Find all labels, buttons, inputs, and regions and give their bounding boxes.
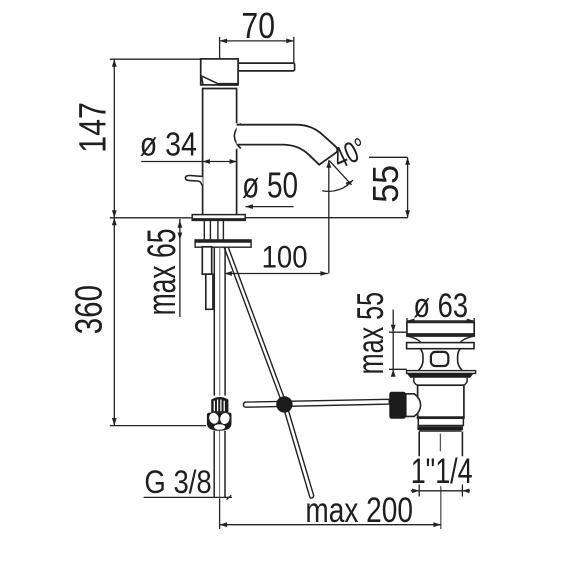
pivot collar and dome: [406, 394, 421, 417]
spout collar arc: [234, 124, 240, 149]
flexible hose: [214, 247, 225, 395]
arrows max55: [391, 325, 396, 333]
svg-text:ø 50: ø 50: [242, 165, 298, 205]
handle lever: [238, 63, 295, 71]
drain upper body sides: [419, 349, 462, 371]
dim max55: [389, 310, 407, 377]
arrows 360: [112, 218, 117, 226]
faucet body: [202, 88, 237, 214]
drain tail top line: [419, 430, 462, 432]
arrows max65: [178, 220, 183, 228]
spout axis vertical leg: [328, 160, 330, 273]
arrows 55: [405, 157, 410, 165]
svg-text:55: 55: [366, 165, 406, 203]
40 degree arc: [322, 180, 353, 191]
threaded stud box A: [202, 247, 211, 274]
dim 1"1/4: [411, 485, 470, 497]
dim max200 line: [220, 524, 441, 526]
svg-text:100: 100: [262, 240, 308, 275]
pop-up rod upper segment: [224, 248, 286, 404]
cartridge housing: [201, 59, 238, 85]
arrow spout axis: [326, 160, 331, 168]
G3/8 nut: [207, 412, 232, 431]
drain bottom band: [417, 426, 463, 430]
svg-text:ø 34: ø 34: [140, 126, 197, 164]
dim 70 extension lines: [220, 37, 294, 63]
dim 55 bracket: [369, 157, 408, 217]
extension line top: [110, 58, 201, 60]
base plate: [192, 215, 245, 221]
LABELS START: [68, 7, 473, 530]
pop-up rod lower segment: [282, 404, 313, 498]
drain centerline: [439, 434, 441, 529]
drain neck curves: [407, 336, 474, 342]
drain collar: [414, 378, 467, 386]
drain upper washer: [407, 343, 474, 349]
drain lower washer: [407, 371, 476, 378]
arrows 100: [224, 271, 232, 276]
dim 100 line: [224, 273, 328, 275]
svg-text:max 55: max 55: [350, 292, 391, 375]
40 degree leg: [329, 161, 351, 185]
deck line right: [245, 217, 407, 219]
dim max65 line: [179, 219, 181, 317]
drain main body: [417, 385, 464, 425]
clamp washer: [195, 240, 251, 247]
arrows 1"1/4: [412, 489, 419, 494]
extension line hose end: [110, 425, 206, 427]
pivot knurled knob: [389, 392, 406, 419]
overflow slot: [431, 352, 448, 366]
spout: [237, 125, 338, 165]
svg-text:147: 147: [72, 102, 114, 153]
svg-text:360: 360: [68, 285, 110, 334]
dim 70 line: [220, 40, 294, 42]
arrows 70: [220, 39, 228, 44]
arrow 40 arc: [346, 181, 352, 187]
supply tubes under deck: [204, 220, 223, 240]
drain tailpiece: [419, 432, 462, 457]
svg-text:max 200: max 200: [305, 490, 413, 530]
extension line deck left: [110, 217, 192, 219]
dim phi50 leader: [245, 206, 293, 208]
arrow phi50: [245, 204, 253, 209]
horizontal actuating rod: [244, 399, 390, 407]
outlet pipe below nut: [214, 431, 225, 498]
dim phi63: [407, 318, 474, 322]
pivot ball joint: [276, 396, 292, 412]
svg-text:G 3/8: G 3/8: [144, 465, 211, 501]
G3/8 knurled connector: [211, 397, 228, 413]
svg-text:70: 70: [241, 7, 275, 47]
drain flange: [407, 322, 474, 336]
dim phi34 leader: [141, 161, 237, 163]
svg-text:1"1/4: 1"1/4: [411, 450, 473, 491]
arrows max200: [220, 522, 228, 527]
dim max200 extension left: [219, 498, 221, 529]
svg-text:max 65: max 65: [141, 228, 184, 315]
arrows phi63: [407, 319, 415, 324]
arrows phi34: [202, 159, 210, 164]
dim 147/360 line: [113, 59, 115, 425]
threaded stud box B: [206, 274, 213, 309]
dim G3/8 leader: [144, 495, 232, 499]
pull-rod knob on body left: [185, 175, 202, 185]
svg-text:ø 63: ø 63: [413, 286, 468, 325]
arrows 147: [112, 59, 117, 66]
